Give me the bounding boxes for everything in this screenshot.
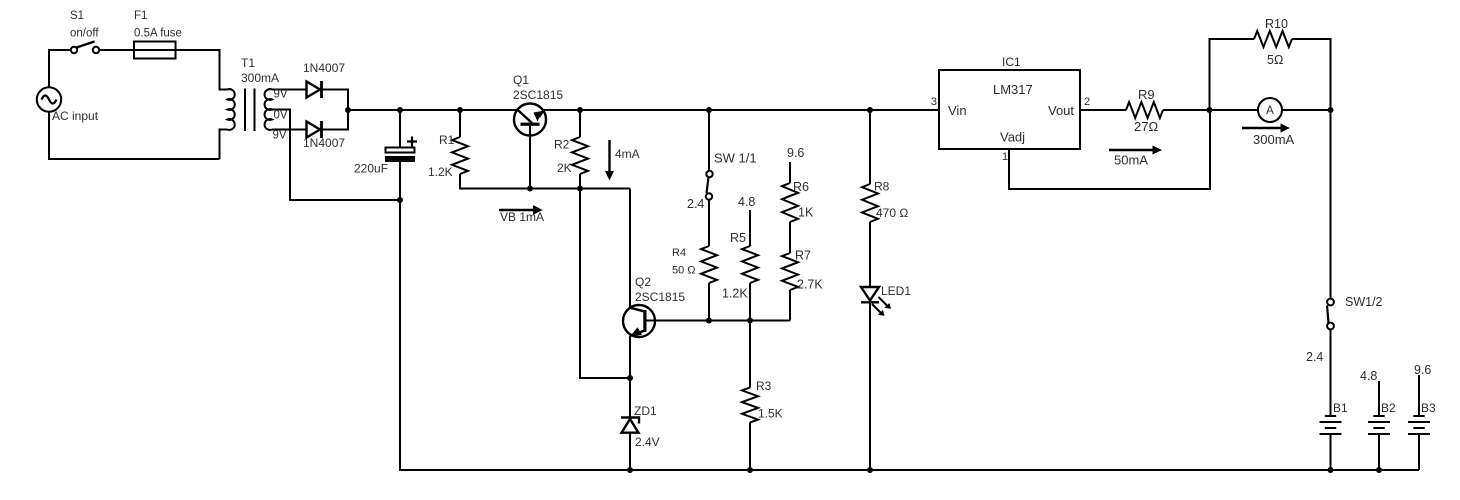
wire SW1/2 to B1 [1330,330,1332,416]
svg-text:on/off: on/off [70,28,99,40]
node R1 top junction (460,110) [457,107,463,113]
svg-text:0.5A fuse: 0.5A fuse [134,28,182,40]
wire R8 to LED1 [869,222,871,287]
resistor R4 [701,246,717,283]
svg-text:R7: R7 [795,249,811,263]
transistor Q1 2SC1815 [514,104,546,189]
switch SW1/2 [1327,299,1334,330]
wire switch to fuse [99,49,134,51]
capacitor 220uF [385,110,417,200]
svg-text:9.6: 9.6 [787,146,804,160]
svg-text:2.4: 2.4 [687,197,704,211]
wire B3 to ground rail [1418,434,1420,470]
battery B3 [1408,416,1430,434]
svg-text:5Ω: 5Ω [1267,53,1283,67]
svg-text:1.2K: 1.2K [428,165,453,179]
wire R5 bottom [749,283,751,321]
svg-text:R5: R5 [730,231,746,245]
wire Q2 emitter down [629,336,631,417]
transformer T1 primary winding [227,89,234,130]
wire R2 leads [579,110,581,189]
svg-text:Vout: Vout [1048,103,1074,118]
wire secondary 9V top tap [272,89,306,91]
wire R2 bottom to Q2 emitter [580,189,630,379]
svg-text:SW1/2: SW1/2 [1345,295,1383,309]
switch SW1/1 [706,171,713,200]
wire R1 leads [460,110,630,189]
wire ammeter to node [1282,109,1331,111]
wire D2 cathode to rail [322,110,349,130]
svg-text:LED1: LED1 [881,284,911,298]
svg-text:4.8: 4.8 [738,195,755,209]
svg-text:T1: T1 [241,56,255,70]
node R4 bottom junction (709,320.5) [706,318,712,324]
resistor R3 [742,388,758,423]
node R2 bottom junction (580,188.5) [577,186,583,192]
svg-text:1K: 1K [798,206,814,220]
wire Q2 base to divider [645,320,790,322]
svg-text:4.8: 4.8 [1360,369,1377,383]
node R2 top junction (580,110) [577,107,583,113]
switch S1 [71,42,99,54]
resistor R10 5ohm [1254,31,1292,47]
AC source: AC input [37,87,61,111]
svg-text:VB 1mA: VB 1mA [500,210,544,224]
resistor R2 [572,137,588,174]
svg-text:IC1: IC1 [1002,55,1021,69]
wire Q2 collector from R1/R2 node [629,189,631,309]
annotation arrow 50mA [1109,146,1162,155]
svg-text:2SC1815: 2SC1815 [513,88,563,102]
LED LED1 [861,287,891,316]
svg-text:F1: F1 [134,10,147,22]
svg-text:S1: S1 [70,10,84,22]
svg-text:Q2: Q2 [635,275,651,289]
node R9/R10 junction (1209.5,110) [1207,107,1213,113]
svg-text:LM317: LM317 [993,82,1033,97]
wire R7 bottom [789,290,791,321]
resistor R6 [782,183,798,222]
svg-text:AC input: AC input [52,109,99,123]
svg-text:1: 1 [1002,151,1008,163]
diode D1 1N4007 top [307,82,321,98]
battery B1 [1320,416,1342,434]
wire B1 to ground rail [1330,434,1332,470]
fuse F1 [134,42,176,59]
wire 4.8 to B2 [1378,381,1380,416]
wire main positive rail [348,109,939,111]
svg-text:2SC1815: 2SC1815 [635,290,685,304]
wire 9.6 tap to R6 [789,162,791,183]
svg-text:2: 2 [1084,96,1090,108]
node cap bottom / 0V junction (400,200) [397,197,403,203]
wire AC loop left/top [49,50,220,159]
node B1 ground junction (1330.5,470) [1328,467,1334,473]
wire SW1/1 to R4 [708,200,710,246]
svg-text:300mA: 300mA [1253,132,1295,147]
svg-text:B1: B1 [1333,401,1348,415]
node R10/ammeter junction (1330.5,110) [1328,107,1334,113]
svg-text:9V: 9V [274,89,288,101]
svg-text:Q1: Q1 [513,73,529,87]
diode D2 1N4007 bottom [307,122,321,138]
svg-text:470 Ω: 470 Ω [876,206,908,220]
transformer core [245,89,255,132]
node rectifier output junction (348,110) [345,107,351,113]
svg-text:R2: R2 [554,138,570,152]
wire D1 cathode to rail [322,90,349,111]
svg-text:1N4007: 1N4007 [303,61,345,75]
zener diode ZD1 2.4V [621,418,639,471]
node R3 ground junction (750,470) [747,467,753,473]
node cap top junction (400,110) [397,107,403,113]
wire LED1 to ground rail [869,302,871,470]
node B2 ground junction (1379,470) [1376,467,1382,473]
svg-text:R1: R1 [439,133,455,147]
svg-text:2.7K: 2.7K [797,278,823,292]
wire node to SW1/2 [1330,110,1332,299]
resistor R1 [452,137,468,174]
svg-text:SW 1/1: SW 1/1 [714,151,757,166]
resistor R7 [782,253,798,290]
svg-text:R10: R10 [1265,17,1288,31]
wire Vout to R9 and node [1080,109,1258,111]
wire R4 bottom [708,283,710,321]
svg-text:1.2K: 1.2K [722,287,748,301]
svg-text:50 Ω: 50 Ω [672,265,696,277]
battery B2 [1368,416,1390,434]
svg-text:R4: R4 [672,247,686,259]
svg-text:R8: R8 [874,180,890,194]
op-amp/regulator IC1 LM317 box [939,70,1080,149]
svg-text:R3: R3 [756,379,772,393]
resistor R5 [742,246,758,283]
svg-text:9.6: 9.6 [1414,363,1431,377]
svg-text:Vin: Vin [948,103,967,118]
annotation arrow 300mA [1242,124,1290,133]
wire ground return left [400,200,1419,470]
ammeter A [1258,98,1282,122]
node ZD1 ground junction (630,470) [627,467,633,473]
svg-text:1N4007: 1N4007 [303,136,345,150]
annotation arrow VB 1mA [499,205,543,215]
svg-text:ZD1: ZD1 [634,404,657,418]
wire B2 to ground rail [1378,434,1380,470]
svg-text:R9: R9 [1138,87,1155,102]
svg-text:50mA: 50mA [1114,153,1148,168]
wire 9.6 to B3 [1418,375,1420,416]
svg-text:B2: B2 [1381,401,1396,415]
wire R10 branch [1210,39,1331,110]
node SW1/1 rail junction (709,110) [706,107,712,113]
svg-text:4mA: 4mA [615,147,640,161]
svg-text:2.4: 2.4 [1306,350,1323,364]
transistor Q2 2SC1815 [623,305,790,337]
transformer T1 secondary winding [265,89,272,130]
svg-text:B3: B3 [1421,401,1436,415]
svg-text:1.5K: 1.5K [758,407,783,421]
resistor R8 [862,184,878,222]
wire fuse to transformer primary [176,50,228,159]
node LED ground junction (870,470) [867,467,873,473]
wire rail to R8 [869,110,871,184]
svg-text:300mA: 300mA [241,71,279,85]
svg-text:9V: 9V [273,130,287,142]
wire R6 to R7 [789,222,791,253]
node Q2 emitter junction (630,378) [627,375,633,381]
svg-text:3: 3 [931,96,937,108]
svg-text:Vadj: Vadj [1000,130,1025,145]
wire 4.8 tap to R5 [749,210,751,246]
svg-text:2.4V: 2.4V [635,435,660,449]
svg-text:2K: 2K [557,161,572,175]
node R5/R3 junction (750,320.5) [747,318,753,324]
wire secondary 9V bottom tap [272,129,306,131]
svg-text:220uF: 220uF [354,162,388,176]
resistor R9 27ohm [1126,102,1163,118]
svg-text:A: A [1266,105,1274,117]
svg-text:R6: R6 [793,180,809,194]
wire rail to SW1/1 [708,110,710,171]
svg-text:0V: 0V [274,110,288,122]
node R8 rail junction (870,110) [867,107,873,113]
svg-text:27Ω: 27Ω [1134,119,1158,134]
wire R3 leads [749,321,751,471]
node Q1 base junction (530,188.5) [527,186,533,192]
annotation arrow 4mA [605,140,614,181]
wire secondary 0V center tap [272,110,400,201]
wire Vadj pin 1 [1009,110,1210,189]
